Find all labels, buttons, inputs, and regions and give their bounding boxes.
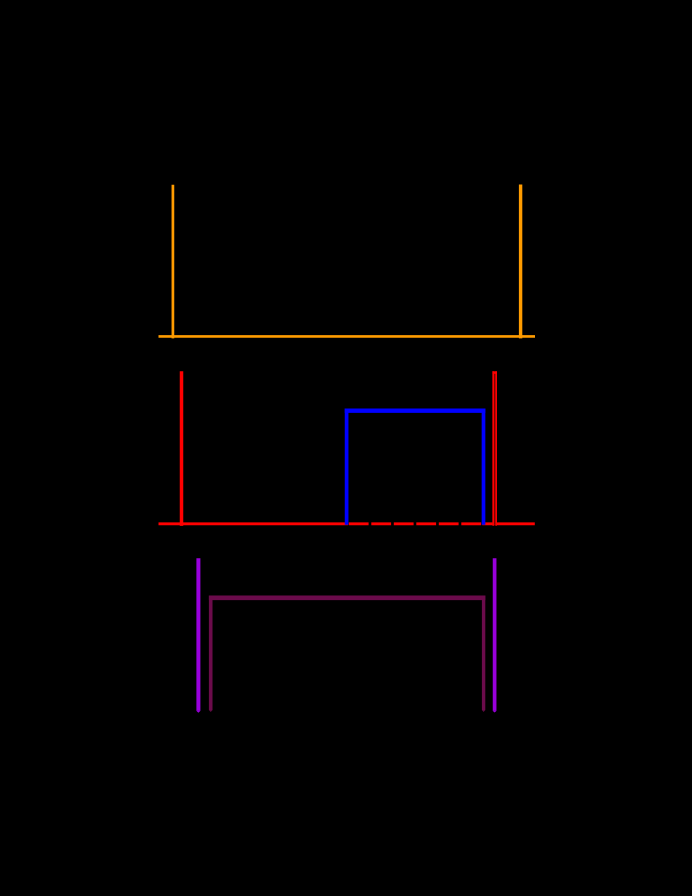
violet impulse right [493,558,497,711]
dark magenta box top edge [209,595,486,600]
red baseline solid right segment [482,522,535,525]
dark magenta box right tip [482,710,485,712]
red double impulse right line [495,371,497,526]
blue filter box right edge [482,409,486,525]
blue filter box top edge [345,409,486,413]
violet impulse left tip [196,711,200,713]
violet impulse right tip [493,711,497,713]
orange baseline (top plot) [159,335,536,338]
dark magenta box left tip [209,710,213,712]
red impulse left [180,371,184,526]
dark magenta box right edge [482,596,485,711]
orange impulse right [519,185,522,339]
dark magenta box left edge [209,596,213,711]
red baseline dashed segment [349,522,482,525]
red double impulse bright cap [492,371,497,374]
blue filter box left edge [345,409,349,525]
red baseline solid left segment (middle plot) [159,522,349,525]
orange impulse left [172,185,175,339]
red double impulse dark core [492,373,497,525]
red double impulse left line [492,371,494,526]
violet impulse left (bottom plot) [196,558,200,711]
